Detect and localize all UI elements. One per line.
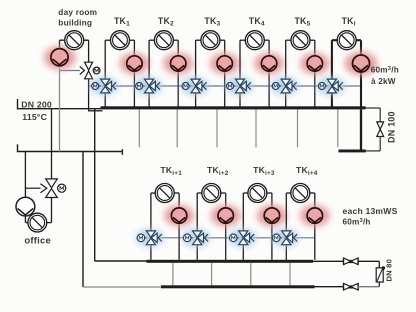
wire TK5 valve top drop bbox=[285, 40, 287, 79]
highlight pump TK5 bbox=[300, 53, 330, 75]
wire TKi valve top drop bbox=[331, 40, 333, 79]
3-way valve TKi+1 with actuator M bbox=[137, 231, 162, 245]
wire bypass down lower bbox=[379, 136, 381, 151]
pump TK4 bbox=[261, 56, 276, 71]
check valve lower supply bbox=[344, 258, 358, 265]
wire TK1 valve top drop bbox=[104, 40, 106, 79]
wire TK2 meter stub left bbox=[149, 39, 155, 41]
wire bypass elbow to bar bbox=[366, 150, 381, 152]
wire lower return header to check valve bbox=[315, 286, 344, 288]
wire TKi+2 meter stub right bbox=[220, 192, 225, 194]
pump day room bbox=[51, 49, 68, 66]
heat meter TK5 bbox=[291, 31, 310, 50]
pump office bbox=[16, 197, 35, 216]
3-way valve office with actuator M bbox=[40, 179, 65, 198]
svg-text:DN 100: DN 100 bbox=[387, 111, 397, 143]
wire TKi+4 pump riser bbox=[314, 193, 316, 260]
heat meter TK2 bbox=[154, 31, 173, 50]
wire TK1 valve drain bbox=[104, 93, 106, 107]
highlight 3-way valve TK4 bbox=[225, 77, 253, 95]
pump TKi+1 bbox=[171, 208, 186, 223]
highlight 3-way valve TK5 bbox=[271, 77, 299, 95]
wire bypass down upper bbox=[379, 108, 381, 122]
check valve lower return bbox=[344, 283, 358, 290]
heat meter TK4 bbox=[245, 31, 264, 50]
heat meter TK3 bbox=[201, 31, 220, 50]
wire corner down to regulator bbox=[378, 261, 380, 268]
wire TKi+1 pump riser bbox=[178, 193, 180, 260]
wire TKi+1 valve top drop bbox=[150, 193, 152, 231]
wire TKi+2 valve top drop bbox=[196, 193, 198, 231]
heat meter office bbox=[28, 213, 47, 232]
3-way valve TKi with actuator M bbox=[318, 79, 342, 93]
wire office supply drop bbox=[51, 109, 53, 179]
heat meter TK1 bbox=[111, 31, 130, 50]
wire TK5 meter stub right bbox=[310, 39, 315, 41]
svg-text:building: building bbox=[58, 17, 92, 27]
wire TKi+3 meter stub right bbox=[266, 192, 272, 194]
wire lower return riser bbox=[82, 152, 84, 288]
pump TK2 bbox=[171, 56, 186, 71]
wire TKi+2 meter stub left bbox=[197, 192, 202, 194]
wire TK1 meter stub left bbox=[105, 39, 111, 41]
highlight pump TK3 bbox=[210, 53, 240, 75]
pump TKi+3 bbox=[264, 208, 279, 223]
highlight 3-way valve TKi bbox=[317, 77, 345, 95]
svg-text:DN 200: DN 200 bbox=[21, 99, 52, 109]
highlight 3-way valve TK3 bbox=[181, 77, 209, 95]
wire TK3 valve top drop bbox=[195, 40, 197, 79]
wire DN200 supply line left bbox=[18, 108, 101, 110]
wire TKi meter stub left bbox=[332, 39, 338, 41]
wire regulator to return header bbox=[378, 282, 380, 287]
pump TKi bbox=[353, 55, 370, 72]
wire TKi valve drain bbox=[331, 93, 333, 107]
pump TK3 bbox=[217, 56, 232, 71]
3-way valve TK3 with actuator M bbox=[182, 79, 206, 93]
wire connector between lower headers 1 bbox=[172, 263, 174, 286]
pump TK5 bbox=[307, 56, 322, 71]
node supply header lower group bbox=[147, 260, 314, 263]
wire connector between lower headers 4 bbox=[289, 263, 291, 286]
highlight day room pump bbox=[44, 46, 76, 70]
3-way valve TK1 with actuator M bbox=[92, 79, 116, 93]
wire TKi+3 valve top drop bbox=[242, 193, 244, 231]
wire stub below header 1 bbox=[138, 109, 140, 147]
wire stub below header 4 bbox=[255, 109, 257, 147]
wire connector between lower headers 3 bbox=[250, 263, 252, 286]
wire day room valve row bbox=[60, 70, 80, 72]
wire top group valve row line bbox=[89, 85, 361, 87]
wire supply line end tick bbox=[17, 99, 19, 109]
highlight pump TK1 bbox=[119, 53, 149, 75]
wire TK5 valve drain bbox=[285, 93, 287, 107]
wire TKi+1 meter stub right bbox=[174, 192, 179, 194]
svg-text:60m3/h: 60m3/h bbox=[371, 66, 399, 75]
pump TKi+4 bbox=[307, 208, 322, 223]
wire TK3 pump riser bbox=[224, 40, 226, 106]
wire TKi+1 meter stub left bbox=[151, 192, 156, 194]
wire day room valve drain bbox=[88, 78, 90, 110]
wire office valve feed line bbox=[25, 187, 40, 189]
wire stub below header 6 bbox=[337, 109, 339, 147]
wire TK2 pump riser bbox=[177, 40, 179, 106]
highlight pump TKi+4 bbox=[300, 205, 330, 227]
heat meter TKi bbox=[337, 31, 356, 50]
wire TK1 meter stub right bbox=[129, 39, 134, 41]
3-way valve TKi+3 with actuator M bbox=[230, 231, 255, 245]
pump TKi+2 bbox=[218, 208, 233, 223]
wire TK4 meter stub right bbox=[264, 39, 269, 41]
highlight pump TK4 bbox=[254, 53, 284, 75]
wire TK2 valve top drop bbox=[148, 40, 150, 79]
highlight 3-way valve TK1 bbox=[90, 77, 118, 95]
3-way valve TKi+2 with actuator M bbox=[183, 231, 208, 245]
highlight 3-way valve TKi+4 bbox=[271, 229, 299, 247]
node supply header top group bbox=[101, 106, 366, 109]
wire TK3 meter stub left bbox=[196, 39, 202, 41]
svg-text:day room: day room bbox=[58, 7, 97, 17]
highlight 3-way valve TKi+1 bbox=[136, 229, 164, 247]
wire connector between lower headers 2 bbox=[211, 263, 213, 286]
wire TKi+4 meter stub right bbox=[309, 192, 315, 194]
wire lower supply header to check valve bbox=[313, 260, 344, 262]
highlight pump TKi+1 bbox=[164, 205, 194, 227]
wire stub below header 3 bbox=[216, 109, 218, 147]
heat meter TKi+2 bbox=[202, 184, 221, 203]
3-way valve TK2 with actuator M bbox=[136, 79, 160, 93]
wire TKi+3 valve drain bbox=[242, 245, 244, 260]
wire day room meter stub left bbox=[60, 39, 66, 41]
wire TKi+3 meter stub left bbox=[243, 192, 248, 194]
wire return line end tick bbox=[17, 144, 19, 152]
wire TK4 valve top drop bbox=[239, 40, 241, 79]
pump TK1 bbox=[127, 56, 142, 71]
wire TK5 meter stub left bbox=[286, 39, 292, 41]
wire return line left bbox=[18, 151, 123, 153]
wire day room drain elbow to header bbox=[88, 110, 103, 112]
svg-text:115°C: 115°C bbox=[22, 112, 47, 122]
wire TKi+4 valve drain bbox=[285, 245, 287, 260]
wire TKi+4 meter stub left bbox=[286, 192, 291, 194]
wire office return drop bbox=[24, 152, 26, 198]
wire check valve to corner bbox=[358, 260, 380, 262]
wire office valve drain bbox=[51, 197, 53, 222]
wire TK4 valve drain bbox=[239, 93, 241, 107]
wire TKi+2 pump riser bbox=[225, 193, 227, 260]
node return bar top group bbox=[339, 150, 366, 153]
wire header to bypass bbox=[366, 107, 381, 109]
wire TK4 meter stub left bbox=[240, 39, 246, 41]
wire TKi+4 valve top drop bbox=[285, 193, 287, 231]
wire day room pump riser bbox=[59, 40, 61, 66]
highlight 3-way valve TKi+2 bbox=[182, 229, 210, 247]
wire return check valve to corner bbox=[358, 286, 380, 288]
wire stub below header 2 bbox=[176, 109, 178, 147]
wire TK4 pump riser bbox=[268, 40, 270, 106]
heat meter day room bbox=[65, 31, 84, 50]
svg-text:DN 80: DN 80 bbox=[385, 259, 394, 282]
3-way valve TKi+4 with actuator M bbox=[273, 231, 298, 245]
wire TKi+2 valve drain bbox=[196, 245, 198, 260]
wire TK3 valve drain bbox=[195, 93, 197, 107]
wire office pump to meter bbox=[25, 222, 28, 224]
wire TK5 pump riser bbox=[314, 40, 316, 106]
heat meter TKi+3 bbox=[248, 184, 267, 203]
wire day room meter stub right bbox=[83, 39, 88, 41]
valve DN100 shutoff bbox=[377, 122, 384, 137]
highlight pump TKi+2 bbox=[211, 205, 241, 227]
wire TKi+3 pump riser bbox=[271, 193, 273, 260]
highlight 3-way valve TKi+3 bbox=[228, 229, 256, 247]
3-way valve TK5 with actuator M bbox=[272, 79, 296, 93]
wire lower return elbow bbox=[83, 286, 162, 288]
wire lower group valve row line bbox=[140, 237, 315, 239]
wire lower supply elbow bbox=[95, 260, 147, 262]
highlight pump TK2 bbox=[163, 53, 193, 75]
wire TKi main riser thick bbox=[360, 109, 362, 149]
wire office pump outlet bbox=[24, 216, 26, 223]
highlight pump TKi bbox=[345, 52, 378, 76]
highlight 3-way valve TK2 bbox=[134, 77, 162, 95]
wire TKi meter stub right bbox=[356, 39, 361, 41]
3-way valve day room with actuator M bbox=[80, 62, 100, 79]
wire office drain to meter bbox=[47, 222, 52, 224]
wire TKi pump riser bbox=[360, 40, 362, 106]
wire TK2 meter stub right bbox=[173, 39, 178, 41]
svg-text:à 2kW: à 2kW bbox=[371, 77, 396, 86]
highlight pump TKi+3 bbox=[257, 205, 287, 227]
wire stub below header 5 bbox=[297, 109, 299, 147]
heat meter TKi+4 bbox=[291, 184, 310, 203]
regulator DN80 with sensing dot bbox=[376, 266, 385, 282]
svg-text:TKi: TKi bbox=[342, 16, 356, 28]
wire day room valve top drop bbox=[88, 40, 90, 62]
wire lower supply riser bbox=[94, 109, 96, 261]
heat meter TKi+1 bbox=[155, 184, 174, 203]
svg-text:60m3/h: 60m3/h bbox=[343, 218, 371, 227]
wire TK2 valve drain bbox=[148, 93, 150, 107]
wire TK3 meter stub right bbox=[219, 39, 224, 41]
wire TK1 pump riser bbox=[133, 40, 135, 106]
svg-text:each 13mWS: each 13mWS bbox=[343, 206, 398, 216]
svg-text:office: office bbox=[24, 236, 51, 247]
node return header lower group bbox=[161, 285, 315, 288]
wire TKi+1 valve drain bbox=[150, 245, 152, 260]
wire return line end tick bbox=[121, 149, 123, 155]
3-way valve TK4 with actuator M bbox=[227, 79, 251, 93]
